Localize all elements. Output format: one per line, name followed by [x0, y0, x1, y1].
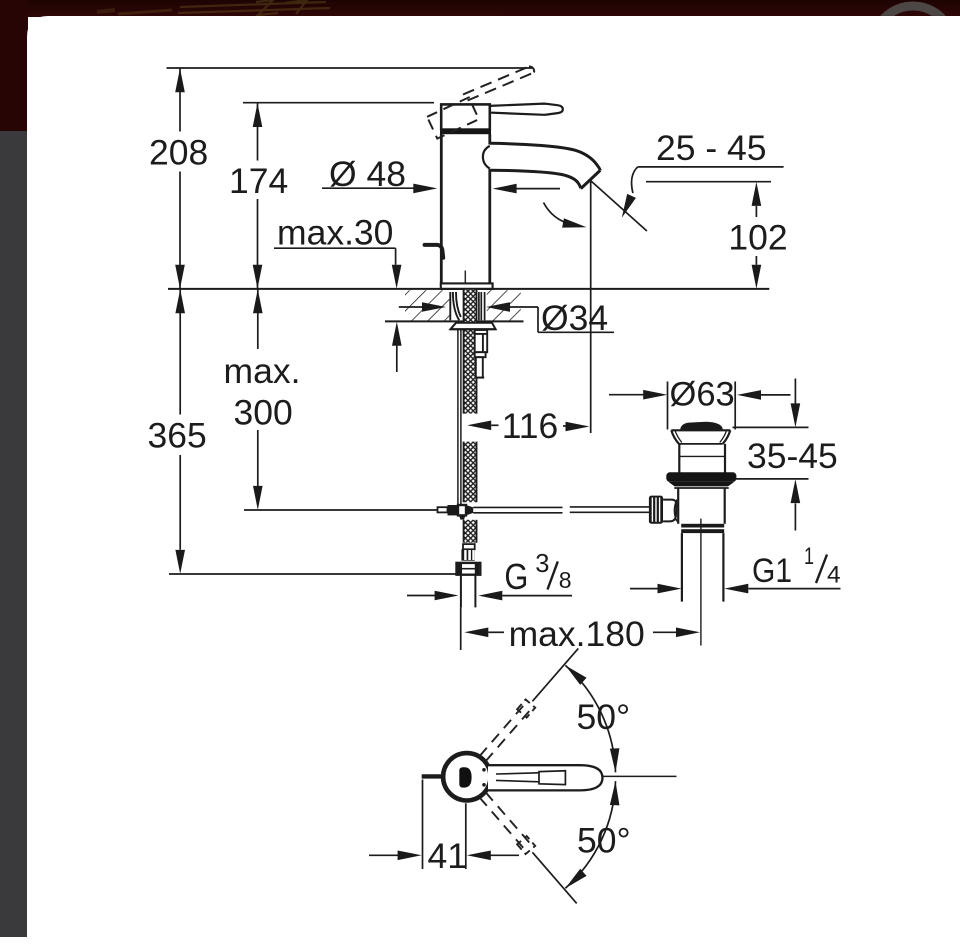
svg-text:300: 300: [234, 393, 293, 433]
faucet body right edge lower: [488, 169, 491, 284]
label G1 1/4: [752, 543, 841, 590]
svg-text:Ø 48: Ø 48: [329, 154, 406, 194]
365 arrows: [175, 289, 185, 313]
116 arrows: [467, 421, 491, 431]
drain tailpipe: [681, 533, 683, 602]
hex nut G3/8: [457, 563, 481, 575]
deck top line: [168, 288, 769, 290]
spacer sleeve (right of shank): [479, 292, 485, 320]
horizontal rod to drain (with length break): [473, 506, 562, 508]
phantom lever (dashed, raised position): [463, 66, 534, 100]
41 arrows: [398, 851, 422, 861]
pop-up pull rod hook: [425, 245, 444, 258]
drain flange trumpet sides: [671, 430, 679, 444]
seal in hole (left of shank): [450, 292, 461, 320]
svg-text:Ø34: Ø34: [541, 298, 608, 338]
svg-text:50°: 50°: [577, 821, 631, 861]
svg-text:50°: 50°: [577, 697, 631, 737]
faucet body right edge upper: [488, 134, 491, 145]
dim max.180 lines: [460, 608, 462, 651]
max.300 arrows: [253, 289, 263, 313]
gray circle arc top right: [873, 6, 953, 86]
phantom lever rotated down 50 deg (dashed): [480, 792, 536, 854]
drain centerline: [700, 519, 702, 646]
dim 35-45 lines: [733, 426, 809, 428]
svg-text:8: 8: [559, 567, 572, 593]
top view faucet body circle: [443, 753, 490, 800]
upper 50deg arc: [565, 665, 615, 772]
drain flange top: [671, 429, 730, 431]
dim 365 line: [179, 289, 181, 414]
label G3/8: [504, 550, 571, 597]
threaded shank (braided texture): [464, 290, 477, 414]
left gray strip: [0, 131, 28, 937]
arrowheads: [175, 68, 800, 860]
dim 116 lines: [491, 424, 498, 426]
lever slot detail: [496, 773, 539, 774]
Ø63 arrows: [643, 390, 667, 400]
horseshoe washer: [451, 323, 496, 329]
svg-text:174: 174: [229, 161, 288, 201]
G3/8 arrows: [435, 591, 459, 601]
deck bottom line: [385, 320, 524, 322]
svg-text:4: 4: [827, 562, 841, 589]
knurled knob of rod joint: [649, 496, 663, 524]
phantom lever rotated up 50 deg (dashed): [480, 700, 536, 762]
cartridge housing: [441, 104, 490, 129]
knob stem: [663, 500, 676, 522]
G3/8 connector pipe: [460, 575, 462, 608]
drain plug dome cap: [681, 422, 722, 429]
base escutcheon plate: [441, 283, 493, 289]
max.30 arrows: [392, 265, 402, 289]
spout top edge: [490, 143, 600, 170]
dim 102 line and ticks: [646, 181, 771, 183]
band bottom shadow line: [500, 16, 960, 17]
dim 174 tick and line: [243, 102, 434, 104]
102 arrows: [752, 182, 762, 206]
drain body top line: [674, 487, 728, 489]
dim 41 lines: [422, 780, 424, 870]
max.180 arrows: [464, 628, 488, 638]
dim G1 1/4 lines: [630, 588, 658, 590]
dim 25-45 leader: [638, 166, 784, 168]
svg-text:3: 3: [535, 550, 549, 578]
centerline right of lever: [603, 775, 677, 777]
braided hose mid section: [464, 442, 477, 503]
spout body fillet: [483, 146, 490, 169]
faint yellow sketch in band: [97, 0, 330, 15]
svg-text:G1: G1: [752, 552, 792, 590]
pop-up rod below deck: [457, 329, 459, 505]
lower 50deg arc: [565, 781, 615, 888]
drain upper cylinder: [678, 444, 680, 473]
35-45 arrows: [791, 403, 801, 427]
pop-up rod in body: [464, 271, 466, 289]
dim max.30 leader: [274, 247, 396, 249]
housing dark ring: [440, 129, 491, 135]
braided hose below tee: [464, 520, 477, 543]
G1 1/4 arrows: [658, 584, 682, 594]
dim G3/8 lines: [407, 595, 435, 597]
Ø48 arrows: [413, 184, 437, 194]
hose end fitting: [461, 544, 474, 561]
svg-text:G: G: [504, 556, 528, 597]
drain rubber seal ring: [666, 472, 736, 482]
pull rod knob top view: [422, 774, 444, 778]
top dark band: [0, 0, 960, 17]
svg-text:365: 365: [148, 415, 207, 455]
svg-text:Ø63: Ø63: [670, 376, 735, 414]
25-45 curved leader arrow: [617, 194, 636, 220]
50deg reference line upper: [532, 648, 578, 701]
svg-text:102: 102: [728, 218, 787, 258]
svg-text:116: 116: [502, 406, 559, 446]
svg-text:208: 208: [149, 133, 208, 173]
spout bottom edge: [490, 170, 581, 188]
deck hatching right: [487, 290, 521, 320]
tee junction of pop-up rod: [438, 505, 474, 520]
stream direction arc: [544, 203, 572, 225]
index dots: [482, 768, 486, 772]
phantom cartridge housing (dashed, rotated): [427, 97, 479, 138]
drain flange base line: [679, 443, 723, 445]
faucet body left edge: [440, 134, 443, 284]
svg-text:35-45: 35-45: [747, 436, 838, 476]
drain lower rings: [681, 524, 724, 528]
svg-text:25 - 45: 25 - 45: [656, 128, 767, 168]
rod guide clip: [475, 330, 488, 378]
dim max.300 line: [257, 289, 259, 349]
50deg reference line lower: [532, 852, 576, 903]
aerator angle diagonal: [590, 180, 647, 231]
174 arrows: [253, 103, 263, 127]
dim Ø48 leader lines: [322, 187, 416, 189]
svg-text:max.30: max.30: [277, 213, 393, 253]
dim Ø63 lines: [609, 394, 644, 396]
svg-text:41: 41: [428, 836, 468, 876]
dim 208 ticks and line: [167, 67, 533, 69]
lever top view capsule: [488, 765, 603, 790]
208 arrows: [175, 68, 185, 92]
svg-text:1: 1: [804, 543, 814, 570]
deck hatching left: [405, 290, 450, 320]
cartridge D mark: [459, 767, 471, 787]
svg-text:max.180: max.180: [509, 614, 645, 654]
Ø34 arrows: [422, 302, 446, 312]
dim Ø34 leader: [399, 306, 423, 308]
lever handle (solid): [490, 104, 563, 115]
stream arc arrow: [562, 218, 587, 232]
left maroon strip top: [0, 0, 28, 131]
aerator outlet extension line: [590, 182, 592, 433]
aerator end face: [581, 170, 600, 188]
drain body: [677, 488, 679, 524]
svg-text:max.: max.: [224, 351, 301, 391]
